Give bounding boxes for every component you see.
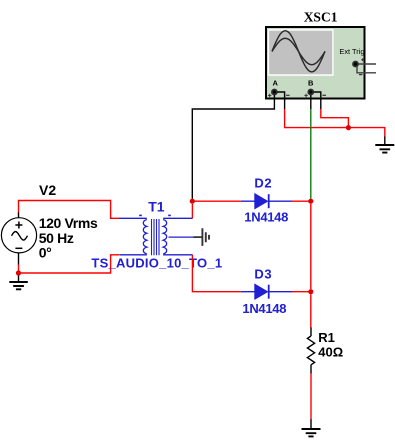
svg-text:D2: D2 (254, 175, 272, 190)
svg-text:XSC1: XSC1 (304, 10, 338, 25)
svg-text:1N4148: 1N4148 (244, 209, 288, 224)
svg-text:V2: V2 (39, 182, 56, 198)
svg-text:1N4148: 1N4148 (242, 301, 286, 316)
svg-text:40Ω: 40Ω (318, 345, 343, 360)
svg-text:R1: R1 (318, 330, 335, 345)
svg-text:B: B (308, 78, 314, 87)
svg-text:A: A (273, 78, 279, 87)
svg-text:0°: 0° (39, 245, 52, 261)
svg-text:50 Hz: 50 Hz (39, 230, 74, 246)
svg-text:Ext Trig: Ext Trig (339, 47, 364, 56)
svg-text:TS_AUDIO_10_TO_1: TS_AUDIO_10_TO_1 (91, 256, 222, 271)
svg-text:T1: T1 (148, 198, 165, 214)
svg-text:120 Vrms: 120 Vrms (39, 215, 98, 231)
svg-text:D3: D3 (254, 266, 272, 281)
